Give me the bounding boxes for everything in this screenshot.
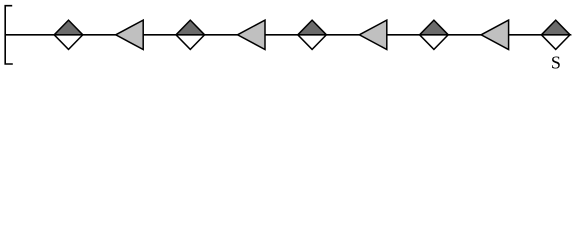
monosaccharide diamond 3 (top half, dark) — [298, 20, 327, 35]
monosaccharide diamond 1 (top half, dark) — [54, 20, 83, 35]
diamond divider line — [176, 34, 205, 36]
monosaccharide diamond 4 (bottom half, white) — [420, 35, 449, 50]
monosaccharide diamond 5 (top half, dark) — [541, 20, 570, 35]
monosaccharide triangle 3 — [359, 20, 387, 49]
wire (main chain line) — [5, 34, 570, 36]
diamond divider line — [541, 34, 570, 36]
monosaccharide triangle 4 — [481, 20, 509, 49]
bracket (left repeat bracket) — [5, 6, 13, 64]
svg-text:S: S — [551, 53, 561, 73]
monosaccharide diamond 3 (bottom half, white) — [298, 35, 327, 50]
monosaccharide diamond 2 (bottom half, white) — [176, 35, 205, 50]
monosaccharide triangle 2 — [238, 20, 266, 49]
diamond divider line — [298, 34, 327, 36]
monosaccharide diamond 1 (bottom half, white) — [54, 35, 83, 50]
diamond divider line — [420, 34, 449, 36]
monosaccharide diamond 5 (bottom half, white) — [541, 35, 570, 50]
diamond divider line — [54, 34, 83, 36]
monosaccharide diamond 2 (top half, dark) — [176, 20, 205, 35]
monosaccharide diamond 4 (top half, dark) — [420, 20, 449, 35]
monosaccharide triangle 1 — [116, 20, 144, 49]
